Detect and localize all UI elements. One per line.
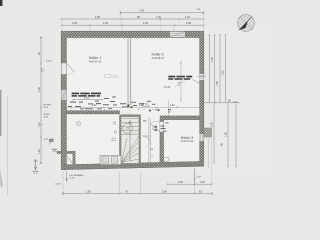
- faint symbols keller1: [105, 75, 112, 78]
- svg-text:-1.40: -1.40: [70, 178, 76, 180]
- stair direction arrow: [129, 121, 132, 162]
- scan artifact top-left corner: [0, 0, 3, 6]
- door opening Keller 3: [160, 122, 164, 132]
- small room door leaf: [67, 156, 73, 164]
- svg-text:1.98: 1.98: [216, 81, 219, 86]
- svg-text:-2.26: -2.26: [43, 139, 49, 141]
- walled-up window in right wall: [198, 74, 207, 80]
- bottom extension lines: [63, 138, 212, 193]
- top dim line 1: [119, 11, 204, 14]
- stair treads: [121, 118, 139, 162]
- svg-text:2.62: 2.62: [222, 70, 225, 75]
- svg-text:-0.45: -0.45: [43, 117, 49, 119]
- svg-text:2.60: 2.60: [178, 181, 183, 184]
- interior dim keller2 vertical: [180, 60, 182, 103]
- svg-text:1.76: 1.76: [84, 97, 89, 100]
- section flag symbol: [49, 139, 54, 145]
- walled-up window in left wall: [61, 90, 66, 100]
- svg-text:2.42: 2.42: [92, 105, 97, 107]
- stair enclosure: [120, 115, 141, 165]
- small symbols near stair left: [88, 107, 157, 141]
- bottom dim line short: [166, 183, 213, 185]
- double sink: [100, 155, 121, 164]
- svg-text:2.05: 2.05: [210, 122, 213, 127]
- scan artifact left edge diagonal: [0, 168, 2, 187]
- walled-up window in top wall: [170, 32, 185, 38]
- svg-text:A=13.41 m2: A=13.41 m2: [181, 140, 194, 143]
- level mark left: [42, 68, 45, 72]
- svg-text:1.26: 1.26: [38, 149, 41, 154]
- wall right: [200, 31, 205, 166]
- annotation text block 2: [168, 76, 192, 80]
- partition wall Keller1/Keller2: [128, 38, 131, 106]
- lobby wall line: [149, 118, 150, 163]
- small room right wall: [73, 154, 76, 166]
- door arc lobby: [143, 136, 151, 145]
- svg-text:OK GELÄNDE: OK GELÄNDE: [70, 174, 85, 177]
- corridor wall: [66, 111, 119, 114]
- dim line 1.76: [72, 99, 103, 101]
- svg-text:2.36: 2.36: [211, 57, 214, 62]
- extension lines top: [62, 14, 204, 31]
- svg-text:17.6/26: 17.6/26: [142, 106, 150, 108]
- lobby specks: [143, 109, 171, 132]
- paper background: [0, 0, 300, 200]
- svg-text:Keller 1: Keller 1: [89, 56, 101, 60]
- svg-text:1.24: 1.24: [103, 22, 108, 25]
- room floors: [66, 38, 128, 111]
- svg-text:3.06: 3.06: [72, 22, 77, 25]
- dots in keller2: [177, 107, 178, 108]
- top dim line 3: [61, 24, 205, 26]
- top dim line 2: [61, 18, 205, 20]
- Keller 3 top wall: [160, 116, 200, 120]
- misc annotation specks corridor band: [68, 97, 156, 110]
- svg-text:4.05: 4.05: [95, 16, 100, 19]
- leader to right wall window: [193, 80, 202, 85]
- svg-text:±0.00: ±0.00: [46, 61, 52, 63]
- small room top wall: [57, 151, 76, 154]
- svg-text:1.64: 1.64: [143, 22, 148, 25]
- door opening in left wall: [61, 63, 66, 75]
- scan artifact left edge line: [0, 90, 1, 136]
- floor drain circle corridor: [77, 122, 81, 126]
- svg-text:1.98: 1.98: [86, 190, 91, 193]
- Keller 3 left wall: [160, 120, 164, 163]
- door leaf Keller 3: [151, 124, 160, 132]
- boiler circle: [122, 123, 132, 133]
- wall top: [61, 31, 204, 38]
- svg-text:A=24.67 m2: A=24.67 m2: [89, 60, 102, 63]
- door post blobs at partition bottom: [127, 105, 129, 108]
- svg-text:Keller 3: Keller 3: [181, 136, 193, 140]
- door leaf left wall: [66, 63, 74, 71]
- svg-text:Keller 2: Keller 2: [152, 53, 164, 57]
- threshold niche Keller 3: [164, 158, 169, 162]
- wall bottom: [61, 161, 204, 170]
- bottom dim line main: [62, 192, 213, 195]
- small marks above stairs: [138, 109, 145, 110]
- svg-text:1.36: 1.36: [156, 16, 161, 19]
- wall left: [61, 31, 67, 170]
- svg-text:±0.00: ±0.00: [55, 184, 61, 186]
- small room left tick: [56, 151, 62, 153]
- svg-text:± 0.00: ± 0.00: [164, 86, 171, 89]
- svg-text:7.24: 7.24: [139, 9, 145, 13]
- svg-text:1.05: 1.05: [224, 132, 227, 137]
- bottom vertical mark right: [194, 169, 196, 183]
- svg-text:2.56: 2.56: [162, 190, 167, 193]
- svg-text:1.26: 1.26: [185, 16, 190, 19]
- bottom leader arrow left: [66, 171, 68, 181]
- svg-text:1.26: 1.26: [200, 181, 205, 184]
- section arrow symbol lower-left: [33, 159, 38, 170]
- svg-text:1.62: 1.62: [170, 105, 175, 107]
- window opening in right wall low: [200, 134, 204, 141]
- svg-text:2.38: 2.38: [186, 22, 191, 25]
- svg-text:A=18.30 m2: A=18.30 m2: [152, 57, 165, 60]
- right horizontal dim: [204, 102, 240, 104]
- svg-text:2.36: 2.36: [38, 87, 41, 92]
- light shaft outside right wall: [204, 128, 212, 137]
- annotation text block 1: [72, 93, 101, 97]
- svg-text:-2.26: -2.26: [43, 107, 49, 109]
